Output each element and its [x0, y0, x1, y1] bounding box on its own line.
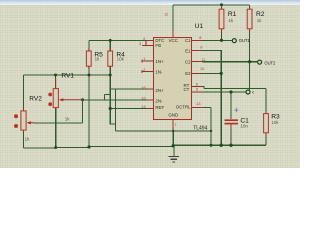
- svg-text:1k: 1k: [228, 18, 234, 23]
- svg-text:12: 12: [164, 13, 168, 17]
- wire vertical x=110.2 from rail75 down through REF tap: [110, 75, 115, 124]
- wire vertical x=115.5 pin16 net down to under-chip run: [115, 89, 117, 131]
- node OUT1/R1: [220, 39, 223, 42]
- node OCTRL riser tee: [210, 130, 212, 132]
- wire R3 top lead: [265, 89, 267, 114]
- wire pin16 2N+ from corner to chip: [110, 88, 147, 90]
- node pin7 under-chip: [172, 130, 174, 132]
- node OUT2/R2: [248, 60, 251, 63]
- pin numbers: [139, 13, 206, 127]
- pin 12 stub: [172, 31, 174, 38]
- wire jog branch wiper rail to REF vertical: [104, 94, 106, 100]
- plus marker: [234, 108, 238, 112]
- pin 6 stub: [192, 86, 203, 88]
- svg-text:1: 1: [143, 57, 145, 61]
- svg-text:E2: E2: [185, 71, 191, 76]
- wire R4 top lead: [109, 40, 111, 51]
- node E1/E2: [220, 72, 223, 75]
- wire pin6 RT jog: [203, 87, 204, 89]
- wire pin10 E2 to E1 vertical: [203, 72, 222, 74]
- svg-text:1k: 1k: [25, 136, 31, 141]
- wire wiper tie RV2 to RV1 y=123: [34, 122, 83, 124]
- wire VCC pin 12 vertical: [172, 5, 174, 31]
- pin 10 stub: [192, 72, 203, 74]
- svg-text:1k: 1k: [257, 18, 263, 23]
- wire step joins at rail dots: [88, 146, 90, 148]
- node REF tap: [109, 107, 112, 110]
- svg-text:CT: CT: [183, 87, 189, 92]
- svg-text:10k: 10k: [117, 57, 125, 62]
- wire pin15 2N- from RV1 wiper to chip: [83, 99, 148, 101]
- wire rail step at RV1 junction: [55, 147, 57, 148]
- svg-text:2N+: 2N+: [155, 88, 164, 93]
- node rail/GND: [172, 144, 175, 147]
- resistor R1: [219, 6, 237, 31]
- svg-text:14: 14: [141, 105, 145, 109]
- wire ground rail segment B: [89, 146, 173, 148]
- resistor R5: [86, 49, 103, 70]
- wire RV2 bottom lead: [23, 131, 25, 149]
- wire RT run to R3: [204, 88, 266, 90]
- terminal c: [246, 89, 254, 94]
- svg-text:8: 8: [199, 36, 201, 40]
- potentiometer RV1: [48, 73, 82, 122]
- wire pin9 E1 right then down: [203, 51, 222, 146]
- svg-text:1k: 1k: [65, 116, 71, 121]
- svg-text:13: 13: [196, 102, 200, 106]
- resistor R4: [108, 49, 125, 70]
- wire R4 bottom lead: [109, 66, 111, 75]
- wire DTC pin4 to R5/R4 rail y=40.4: [89, 39, 146, 41]
- wire REF rail y=75 RV2 top to R4 bottom: [24, 74, 111, 76]
- svg-text:1k: 1k: [95, 57, 101, 62]
- svg-text:TL494: TL494: [193, 125, 207, 131]
- svg-text:E1: E1: [185, 48, 191, 53]
- svg-text:VCC: VCC: [169, 38, 178, 43]
- svg-text:RV2: RV2: [29, 95, 42, 102]
- wire RV1 wiper junction down: [82, 100, 84, 123]
- svg-text:c: c: [252, 89, 254, 94]
- svg-text:11: 11: [202, 58, 206, 62]
- wire R1 bottom lead to OUT1 wire: [221, 29, 223, 41]
- svg-text:5: 5: [196, 88, 198, 92]
- node rail/C1: [229, 144, 232, 147]
- node rail/E1E2: [220, 144, 223, 147]
- svg-text:9: 9: [200, 46, 202, 50]
- wire R1 top lead: [221, 5, 223, 9]
- wire OUT2 node down to c node: [249, 62, 251, 90]
- svg-text:10: 10: [200, 67, 204, 71]
- node rail/RV1: [54, 146, 57, 149]
- window top edge bar: [0, 0, 300, 5]
- potentiometer RV2: [14, 95, 42, 141]
- svg-text:7: 7: [174, 123, 176, 127]
- svg-text:4: 4: [143, 37, 145, 41]
- svg-text:2: 2: [143, 68, 145, 72]
- wire pin14 REF from tap to chip: [110, 108, 147, 110]
- svg-text:OUT2: OUT2: [264, 60, 276, 65]
- node rail75/R4: [109, 74, 112, 77]
- node rail/R5vert: [87, 145, 90, 148]
- node rail40/R4: [109, 39, 112, 42]
- svg-text:1N+: 1N+: [155, 59, 164, 64]
- op-amp U1 body: [154, 38, 192, 120]
- resistor R3: [264, 111, 280, 137]
- pin 16 stub: [147, 88, 154, 90]
- wiper arrow RV1: [62, 99, 83, 101]
- chip inside labels: [155, 38, 191, 118]
- wire ground rail segment C: [173, 144, 266, 146]
- pin 2 stub: [142, 71, 154, 73]
- pin 1 stub: [142, 60, 154, 62]
- wire C1 cap bottom lead to rail: [230, 128, 232, 145]
- wire VCC top rail y=4.8 from pin12 to R2 top: [173, 4, 250, 6]
- node wiper RV1: [81, 98, 84, 101]
- pin 15 stub: [147, 99, 154, 101]
- svg-text:FB: FB: [155, 43, 161, 48]
- node rail/OCTRL riser: [210, 144, 213, 147]
- pin 5 stub: [192, 91, 203, 93]
- svg-text:OCTRL: OCTRL: [176, 104, 191, 109]
- wire RV2 top lead vertical: [23, 75, 25, 108]
- pin 3 stub + tie: [145, 40, 147, 45]
- wire RV1 top lead vertical: [55, 75, 57, 89]
- pin 13 stub: [192, 106, 204, 108]
- svg-text:DTC: DTC: [155, 38, 164, 43]
- wire under-chip ground run y=130.5 to OCTRL riser: [116, 130, 212, 132]
- wire OCTRL riser x=211.5: [210, 107, 212, 145]
- svg-text:2N-: 2N-: [155, 99, 163, 104]
- wire C1 cap top lead: [230, 92, 232, 119]
- svg-text:6: 6: [196, 82, 198, 86]
- svg-text:16: 16: [141, 86, 145, 90]
- svg-text:GND: GND: [168, 113, 178, 118]
- wire R5 bottom lead long vertical to ground rail: [88, 66, 90, 147]
- wire RV1 bottom lead to ground rail: [55, 108, 57, 148]
- wire pin11 C2 to OUT2 terminal: [203, 61, 258, 63]
- pin 14 stub: [147, 108, 154, 110]
- svg-text:RV1: RV1: [61, 73, 74, 80]
- svg-text:10k: 10k: [271, 120, 279, 125]
- pin 11 stub: [192, 61, 203, 63]
- svg-text:OUT1: OUT1: [239, 38, 251, 43]
- wire ground rail segment A1: [24, 147, 56, 149]
- wire R2 bottom lead to C2/OUT2 wire: [249, 29, 251, 62]
- wire OCTRL pin13 green part: [204, 106, 211, 108]
- svg-text:C2: C2: [185, 59, 191, 64]
- svg-text:15: 15: [141, 97, 145, 101]
- node CT/C1: [229, 90, 232, 93]
- wire GND pin7 vertical to rail: [172, 130, 174, 146]
- svg-text:C1: C1: [185, 38, 191, 43]
- node rail75/RV1: [54, 74, 57, 77]
- pin 4 stub: [142, 31, 204, 130]
- terminal OUT2: [258, 60, 276, 65]
- svg-text:3: 3: [139, 42, 141, 46]
- svg-text:10n: 10n: [240, 124, 248, 129]
- node VCC/R1: [220, 3, 223, 6]
- pin 8 stub: [192, 39, 203, 41]
- wire pin5 CT to c terminal: [203, 91, 246, 93]
- wire R3 bottom lead to rail: [265, 137, 267, 146]
- ground symbol: [169, 146, 180, 162]
- wire ground rail segment A2: [56, 146, 89, 148]
- terminal OUT1: [232, 38, 250, 43]
- svg-text:1N-: 1N-: [155, 70, 163, 75]
- wire pin8 C1 to OUT1 terminal: [203, 39, 233, 41]
- resistor R2: [247, 6, 265, 31]
- capacitor C1 plates: [225, 119, 239, 121]
- wire R2 top lead: [249, 5, 251, 9]
- wiper arrow RV2: [29, 122, 33, 124]
- node rail75/R5: [88, 74, 91, 77]
- pin 7 stub: [172, 120, 174, 130]
- pin 9 stub: [192, 50, 203, 52]
- wire R5 top lead: [88, 40, 90, 51]
- svg-text:REF: REF: [155, 105, 164, 110]
- svg-text:U1: U1: [195, 23, 204, 30]
